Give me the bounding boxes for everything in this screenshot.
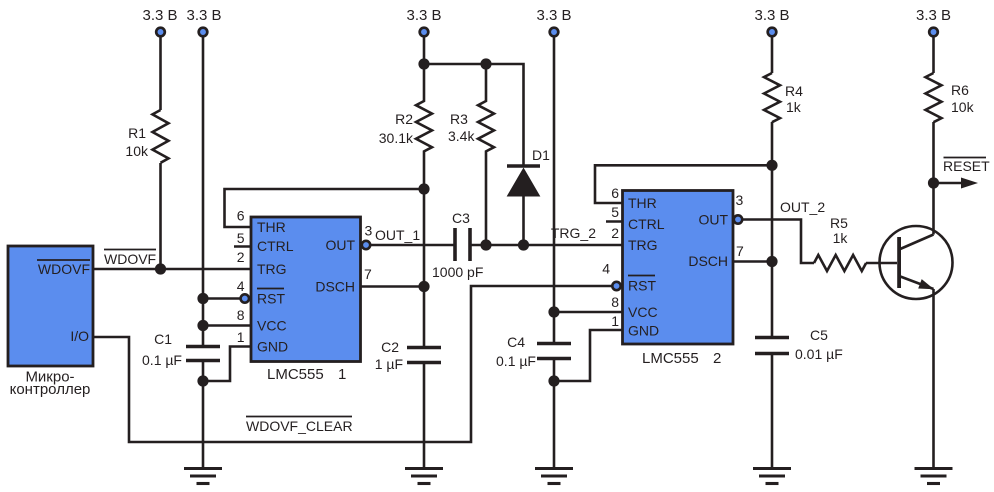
junction rail / RST1: [197, 293, 208, 304]
svg-text:RST: RST: [257, 291, 285, 307]
wire terminal3 to R2 top junction: [423, 37, 426, 65]
ground (C2): [405, 469, 443, 484]
junction R1 / WDOVF: [155, 263, 166, 274]
svg-text:10k: 10k: [951, 99, 975, 115]
svg-text:CTRL: CTRL: [257, 238, 294, 254]
wire C4 bottom to ground: [553, 359, 556, 469]
wire DSCH junction to C2: [423, 287, 426, 348]
svg-text:DSCH: DSCH: [688, 253, 728, 269]
svg-text:DSCH: DSCH: [315, 279, 355, 295]
wire GND1 step from U1 pin1: [203, 347, 251, 382]
svg-text:D1: D1: [532, 147, 550, 163]
wire terminal6 to R6: [932, 37, 935, 74]
svg-text:1k: 1k: [833, 230, 849, 246]
svg-text:3.3 В: 3.3 В: [186, 7, 221, 24]
wire R1 bottom to WDOVF net: [159, 163, 162, 269]
wire U2 DSCH to column: [733, 260, 772, 263]
svg-text:5: 5: [611, 204, 619, 220]
svg-text:контроллер: контроллер: [10, 381, 91, 398]
power terminal 3.3V #5: [754, 7, 789, 36]
resistor R6: [926, 73, 975, 122]
svg-text:3.3 В: 3.3 В: [916, 7, 951, 24]
svg-text:1k: 1k: [786, 99, 802, 115]
svg-text:C1: C1: [154, 331, 172, 347]
wire U2 THR feedback loop: [595, 165, 772, 203]
svg-text:LMC555: LMC555: [642, 350, 699, 367]
ground (left rail): [184, 469, 222, 484]
svg-text:I/O: I/O: [70, 328, 89, 344]
wire terminal5 to R4: [771, 37, 774, 74]
svg-text:THR: THR: [257, 219, 286, 235]
pin stub CTRL U2: [606, 220, 623, 223]
junction R3 top: [480, 58, 491, 69]
svg-text:WDOVF_CLEAR: WDOVF_CLEAR: [246, 418, 353, 434]
transistor Q1: [880, 226, 953, 299]
wire C2 bottom to ground: [423, 363, 426, 469]
svg-text:7: 7: [364, 266, 372, 282]
junction D1 anode: [518, 239, 529, 250]
svg-text:TRG_2: TRG_2: [551, 225, 596, 241]
svg-text:C3: C3: [452, 210, 470, 226]
svg-text:3: 3: [365, 223, 373, 239]
wire VCC1 from rail to U1: [203, 324, 251, 327]
junction DSCH1: [418, 281, 429, 292]
resistor R1: [125, 110, 168, 163]
svg-text:RESET: RESET: [943, 158, 990, 174]
microcontroller block: [8, 246, 93, 398]
junction C1 / GND1: [197, 375, 208, 386]
ground (C4): [535, 469, 573, 484]
net OUT_1 : U1 OUT bubble to C3: [370, 244, 455, 247]
wire R2 column down through OUT_1 to DSCH junction: [423, 189, 426, 287]
svg-text:OUT_1: OUT_1: [375, 227, 420, 243]
power terminal 3.3V #2: [186, 7, 221, 36]
svg-text:1000 pF: 1000 pF: [432, 264, 483, 280]
resistor R2: [379, 64, 432, 189]
wire C5 bottom to ground: [771, 354, 774, 469]
svg-text:OUT_2: OUT_2: [780, 199, 825, 215]
wire R4 bottom to THR2 junction: [771, 122, 774, 165]
power terminal 3.3V #3: [406, 7, 441, 36]
svg-text:2: 2: [237, 249, 245, 265]
svg-text:3.3 В: 3.3 В: [406, 7, 441, 24]
junction DSCH2: [766, 256, 777, 267]
junction rail / VCC1: [197, 320, 208, 331]
net TRG_2 : C3 to U2 TRG: [470, 244, 623, 247]
resistor R4: [764, 73, 803, 122]
power terminal 3.3V #6: [916, 7, 951, 36]
net RESET arrow: [934, 158, 991, 189]
svg-text:5: 5: [237, 230, 245, 246]
net WDOVF_CLEAR : micro I/O to U2 RST: [93, 286, 612, 442]
timer IC U2 LMC555 2: [623, 191, 734, 368]
svg-text:0.1 µF: 0.1 µF: [496, 353, 536, 369]
ground (C5): [753, 469, 791, 484]
bubble U1 RST: [241, 294, 249, 302]
wire DSCH2 junction to C5: [771, 262, 774, 338]
resistor R5: [814, 215, 866, 271]
wire top rail y=64 to D1: [424, 64, 524, 166]
wire 3.3V rail left (terminal2 down to C1): [202, 37, 205, 347]
svg-text:1: 1: [338, 366, 346, 383]
svg-text:10k: 10k: [125, 143, 149, 159]
svg-text:3: 3: [736, 192, 744, 208]
junction R3 bottom: [480, 239, 491, 250]
svg-text:2: 2: [611, 225, 619, 241]
svg-text:WDOVF: WDOVF: [104, 251, 156, 267]
wire R5 to transistor base: [866, 262, 897, 265]
svg-text:2: 2: [713, 350, 721, 367]
svg-text:GND: GND: [628, 323, 659, 339]
svg-text:C4: C4: [507, 334, 525, 350]
pin stub CTRL U1: [234, 245, 251, 248]
svg-text:GND: GND: [257, 339, 288, 355]
wire R6 bottom to RESET node and collector: [932, 122, 935, 235]
svg-text:7: 7: [736, 243, 744, 259]
wire VCC2 from rail to U2: [554, 311, 623, 314]
wire U1 DSCH to column: [361, 285, 425, 288]
svg-text:TRG: TRG: [257, 261, 287, 277]
net label WDOVF: [104, 250, 156, 268]
svg-text:1 µF: 1 µF: [375, 356, 403, 372]
svg-text:THR: THR: [628, 195, 657, 211]
wire emitter to ground: [932, 289, 935, 468]
capacitor C4: [496, 334, 571, 369]
svg-text:1: 1: [237, 329, 245, 345]
wire RST1 from rail to bubble: [203, 297, 241, 300]
svg-text:3.3 В: 3.3 В: [536, 7, 571, 24]
junction C4 / GND2: [548, 375, 559, 386]
svg-text:8: 8: [237, 307, 245, 323]
svg-text:3.4k: 3.4k: [448, 128, 475, 144]
svg-text:4: 4: [237, 278, 245, 294]
svg-text:R1: R1: [128, 125, 146, 141]
svg-text:R6: R6: [951, 82, 969, 98]
timer IC U1 LMC555 1: [251, 217, 361, 383]
svg-text:6: 6: [611, 185, 619, 201]
ground (emitter): [915, 469, 953, 484]
svg-text:1: 1: [611, 313, 619, 329]
net WDOVF : micro WDOVF pin to U1 TRG pin: [93, 268, 251, 271]
wire C1 bottom to ground: [202, 361, 205, 469]
svg-text:3.3 В: 3.3 В: [754, 7, 789, 24]
svg-text:6: 6: [237, 208, 245, 224]
power terminal 3.3V #4: [536, 7, 571, 36]
svg-text:VCC: VCC: [628, 304, 658, 320]
wire 3.3V rail #4 (terminal4 down to C4): [553, 37, 556, 344]
bubble U2 RST: [612, 282, 620, 290]
resistor R3: [448, 64, 494, 245]
diode D1: [507, 147, 550, 245]
junction R2 bottom / THR feedback: [418, 183, 429, 194]
wire R4 column down to DSCH2 junction: [771, 165, 774, 261]
wire terminal1 to R1 top: [159, 37, 162, 111]
net label WDOVF_CLEAR: [246, 417, 353, 435]
svg-text:8: 8: [611, 294, 619, 310]
svg-text:R5: R5: [830, 215, 848, 231]
net OUT_2 : U2 OUT bubble to R5: [742, 220, 814, 264]
svg-text:LMC555: LMC555: [267, 366, 324, 383]
svg-text:R2: R2: [395, 111, 413, 127]
capacitor C3: [432, 210, 483, 280]
svg-text:C5: C5: [810, 327, 828, 343]
svg-text:0.01 µF: 0.01 µF: [795, 346, 843, 362]
svg-text:RST: RST: [628, 278, 656, 294]
capacitor C1: [142, 331, 220, 368]
svg-text:30.1k: 30.1k: [379, 130, 414, 146]
svg-text:3.3 В: 3.3 В: [142, 7, 177, 24]
power terminal 3.3V #1: [142, 7, 177, 36]
bubble U1 OUT: [362, 241, 370, 249]
bubble U2 OUT: [734, 215, 742, 223]
junction R2 top: [418, 58, 429, 69]
svg-text:R4: R4: [785, 83, 803, 99]
junction rail4 / VCC2: [548, 306, 559, 317]
svg-text:VCC: VCC: [257, 318, 287, 334]
wire U1 THR feedback loop: [225, 189, 425, 227]
svg-text:TRG: TRG: [628, 237, 658, 253]
svg-text:OUT: OUT: [698, 212, 728, 228]
wire GND2 step from U2 pin1: [554, 330, 623, 381]
svg-text:OUT: OUT: [325, 237, 355, 253]
svg-text:0.1 µF: 0.1 µF: [142, 352, 182, 368]
svg-text:4: 4: [602, 261, 610, 277]
svg-text:R3: R3: [450, 111, 468, 127]
junction R4 / THR2: [766, 160, 777, 171]
svg-text:C2: C2: [381, 339, 399, 355]
capacitor C5: [755, 327, 843, 362]
junction RESET node: [928, 177, 939, 188]
svg-text:WDOVF: WDOVF: [38, 261, 90, 277]
svg-text:CTRL: CTRL: [628, 216, 665, 232]
capacitor C2: [375, 339, 441, 372]
